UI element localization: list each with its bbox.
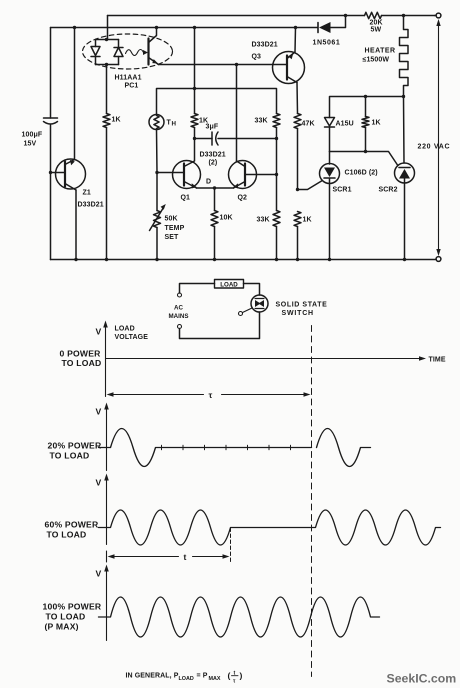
label 1N5061 xyxy=(313,40,341,47)
svg-text:AC: AC xyxy=(174,305,183,312)
svg-text:0 POWER: 0 POWER xyxy=(60,349,102,359)
junction bottom rail / 1K xyxy=(296,258,299,261)
axis V row1 (load voltage) xyxy=(105,325,107,397)
watermark SeekIC.com xyxy=(387,672,457,686)
svg-text:τ: τ xyxy=(233,679,236,685)
wire diode to rail A link xyxy=(331,16,346,28)
junction bottom rail / 33K xyxy=(275,258,278,261)
opto light squiggle arrow xyxy=(126,50,149,56)
resistor 1K (SCR1 gate) xyxy=(294,212,301,227)
label LOAD xyxy=(220,282,238,289)
svg-text:TO LOAD: TO LOAD xyxy=(47,530,87,540)
axis V row4 xyxy=(106,569,108,641)
wire top rail A (right of 20K) xyxy=(382,15,435,17)
label AC MAINS xyxy=(169,305,189,321)
svg-text:VOLTAGE: VOLTAGE xyxy=(115,334,149,341)
wire opto emitter to Q3 base xyxy=(159,64,273,66)
opto phototransistor base bar xyxy=(147,39,149,65)
resistor R3 33K (upper, x=276) xyxy=(273,114,280,128)
label C106D (2) xyxy=(345,170,378,177)
svg-text:D: D xyxy=(206,179,211,186)
value label 1K xyxy=(199,118,208,125)
resistor 10K xyxy=(214,188,216,211)
svg-text:LOAD: LOAD xyxy=(115,326,135,333)
source 220VAC terminals and arrows xyxy=(436,13,441,18)
value label 1K xyxy=(303,217,312,224)
junction R2 bottom / C2 3uF xyxy=(193,137,196,140)
resistor R4 33K (lower, x=276) xyxy=(273,211,280,227)
svg-text:PC1: PC1 xyxy=(125,83,139,90)
transistor Q2 xyxy=(229,161,257,189)
dimension line t xyxy=(106,551,108,562)
junction rail B / Z1 collector xyxy=(73,26,76,29)
junction opto cathode bus xyxy=(105,63,108,66)
opto LED top bus xyxy=(96,39,119,41)
junction rail A / diode link xyxy=(344,14,347,17)
label SCR1 xyxy=(333,187,352,194)
triac gate terminal xyxy=(239,312,243,316)
junction 47K / 1K / SCR1 gate xyxy=(296,188,299,191)
svg-text:3μF: 3μF xyxy=(206,124,219,131)
value label 1K xyxy=(372,120,381,127)
svg-text:τ: τ xyxy=(209,390,213,400)
wire TH bottom to Q1 base node xyxy=(156,130,159,173)
svg-text:20K: 20K xyxy=(370,20,383,27)
svg-text:SeekIC.com: SeekIC.com xyxy=(387,672,457,686)
transistor Q3 xyxy=(273,52,305,84)
svg-text:33K: 33K xyxy=(255,118,268,125)
svg-text:20% POWER: 20% POWER xyxy=(48,441,102,451)
junction Q3 base / Q2 collector drop xyxy=(235,63,238,66)
value label 1K xyxy=(112,117,121,124)
svg-text:V: V xyxy=(96,407,102,417)
label t xyxy=(184,552,187,562)
wire node y=96 xyxy=(330,97,404,118)
transistor Z1 xyxy=(56,159,86,189)
svg-text:IN GENERAL, P: IN GENERAL, P xyxy=(126,673,179,680)
transistor Q1 xyxy=(173,161,201,189)
svg-text:Z1: Z1 xyxy=(83,190,91,197)
svg-text:100μF: 100μF xyxy=(22,132,43,139)
svg-text:(P MAX): (P MAX) xyxy=(45,622,79,632)
junction emitters / 10K xyxy=(213,186,216,189)
label Q2 xyxy=(238,195,248,202)
triac solid state switch xyxy=(251,295,268,312)
svg-text:100% POWER: 100% POWER xyxy=(43,602,102,612)
label D33D21 / Q3 xyxy=(252,42,278,61)
diode CR1 1N5061 xyxy=(317,23,319,33)
dashed line at t end xyxy=(230,528,232,562)
junction rail A / heater xyxy=(402,14,405,17)
waveform 60% power xyxy=(99,510,441,545)
wire AC bottom to triac xyxy=(180,312,260,339)
junction rail B / opto collector xyxy=(155,26,158,29)
formula IN GENERAL P_LOAD = P_MAX (t/tau) xyxy=(126,671,243,685)
thyristor SCR1 xyxy=(329,152,331,165)
resistor 47K xyxy=(294,114,301,129)
value label 33K xyxy=(257,217,270,224)
svg-text:SOLID STATE: SOLID STATE xyxy=(276,302,328,309)
svg-text:33K: 33K xyxy=(257,217,270,224)
svg-text:1N5061: 1N5061 xyxy=(313,40,341,47)
svg-text:1K: 1K xyxy=(112,117,121,124)
svg-text:50K: 50K xyxy=(165,216,178,223)
value label 20K / 5W xyxy=(370,20,383,34)
svg-text:1K: 1K xyxy=(303,217,312,224)
axis V row2 xyxy=(106,407,108,471)
wire node y=151 to SCR2 gate xyxy=(330,152,398,166)
wire Q2 collector drop xyxy=(236,65,238,162)
axis V row3 xyxy=(106,478,108,545)
diode A15U xyxy=(325,118,335,127)
junction bottom rail / SCR2 xyxy=(403,258,406,261)
wire top rail A (left of 20K) xyxy=(108,15,365,17)
svg-text:Q1: Q1 xyxy=(181,195,191,202)
dashed reference line x=311 xyxy=(311,326,313,677)
svg-text:H11AA1: H11AA1 xyxy=(115,75,142,82)
label SOLID STATE SWITCH xyxy=(276,302,328,318)
label TH xyxy=(167,120,177,128)
svg-text:HEATER: HEATER xyxy=(365,48,396,55)
svg-text:MAINS: MAINS xyxy=(169,313,189,320)
junction y=88 / R2 1K line xyxy=(193,87,196,90)
svg-text:TO LOAD: TO LOAD xyxy=(46,612,86,622)
baseline row1 with TIME arrow xyxy=(106,358,423,360)
value label 10K xyxy=(220,215,233,222)
svg-text:= P: = P xyxy=(197,673,208,680)
junction opto anode bus xyxy=(105,38,108,41)
AC mains terminal (top) xyxy=(178,293,182,297)
wire Z1 emitter to bottom rail xyxy=(75,190,77,260)
label Q1 xyxy=(181,195,191,202)
label Z1 / D33D21 xyxy=(78,190,104,209)
junction bottom rail / SCR1 xyxy=(328,258,331,261)
svg-text:15V: 15V xyxy=(24,141,37,148)
junction Q1 base / TH / 50K pot xyxy=(155,171,158,174)
svg-text:LOAD: LOAD xyxy=(179,676,194,682)
label HEATER 1500W xyxy=(363,48,396,64)
wire Q3 emitter down xyxy=(296,83,299,114)
LOAD box xyxy=(215,280,244,289)
label D (between Q1 Q2) xyxy=(206,179,211,186)
svg-text:V: V xyxy=(96,569,102,579)
svg-text:47K: 47K xyxy=(302,121,315,128)
resistor 20K 5W in rail A xyxy=(365,12,382,18)
waveform 100% power xyxy=(99,597,380,637)
svg-text:t: t xyxy=(184,552,187,562)
heater element 1500W xyxy=(400,16,409,97)
value label 50K TEMP SET xyxy=(165,216,185,242)
svg-text:≤1500W: ≤1500W xyxy=(363,57,390,64)
svg-text:LOAD: LOAD xyxy=(220,282,238,289)
wire bottom rail xyxy=(51,259,437,261)
junction 1K bottom / y=151 xyxy=(364,150,367,153)
junction Q2 base / divider xyxy=(275,173,278,176)
dimension line tau xyxy=(113,394,204,396)
svg-text:D33D21: D33D21 xyxy=(78,202,104,209)
junction bottom rail / 50K xyxy=(155,258,158,261)
wire top rail to source xyxy=(435,15,437,17)
svg-text:SCR1: SCR1 xyxy=(333,187,352,194)
value label 3uF xyxy=(206,124,219,131)
opto LED D2 pointing up xyxy=(118,40,120,48)
junction bottom rail / 10K xyxy=(213,258,216,261)
label 20% POWER TO LOAD xyxy=(48,441,102,461)
waveform 20% power xyxy=(99,429,312,467)
svg-text:60% POWER: 60% POWER xyxy=(45,520,99,530)
capacitor C2 3uF xyxy=(195,138,213,140)
svg-text:(: ( xyxy=(228,671,231,681)
opto LED D1 pointing down xyxy=(95,40,97,47)
svg-text:C106D (2): C106D (2) xyxy=(345,170,378,177)
tick marks row2 baseline xyxy=(161,445,163,450)
opto phototransistor collector lead xyxy=(149,28,157,43)
label 100% POWER TO LOAD (P MAX) xyxy=(43,602,102,632)
svg-text:Q2: Q2 xyxy=(238,195,248,202)
svg-text:D33D21: D33D21 xyxy=(252,42,278,49)
svg-text:MAX: MAX xyxy=(209,676,221,682)
thermistor TH xyxy=(149,115,164,130)
label TIME xyxy=(429,357,446,364)
resistor 1K (SCR2 gate) xyxy=(365,97,367,117)
svg-text:SET: SET xyxy=(165,234,180,241)
junction C2 / 33K divider xyxy=(275,137,278,140)
junction Z1 base on left rail xyxy=(49,171,52,174)
junction 1K right top xyxy=(364,95,367,98)
value label 33K xyxy=(255,118,268,125)
wire LOAD left to AC terminal xyxy=(180,284,215,294)
svg-text:TEMP: TEMP xyxy=(165,225,185,232)
svg-text:TIME: TIME xyxy=(429,357,446,364)
value label 100uF 15V xyxy=(22,132,43,148)
svg-text:V: V xyxy=(96,478,102,488)
svg-text:TO LOAD: TO LOAD xyxy=(62,358,102,368)
wire drop rail A to opto anode bus xyxy=(107,16,109,40)
label LOAD VOLTAGE xyxy=(115,326,149,342)
wire Q1-Q2 emitter join xyxy=(197,187,234,189)
wire node y=88 (TH top to 33K top) xyxy=(157,89,277,115)
resistor R1 1K (x=106) xyxy=(106,65,108,114)
resistor R2 1K (x=194) xyxy=(194,28,196,114)
svg-text:V: V xyxy=(96,327,102,337)
value label 47K xyxy=(302,121,315,128)
svg-text:220 VAC: 220 VAC xyxy=(418,144,451,151)
label A15U xyxy=(336,121,354,128)
label D33D21 (2) xyxy=(200,152,226,167)
junction heater bottom / SCR2 anode xyxy=(402,95,405,98)
svg-text:SCR2: SCR2 xyxy=(379,187,398,194)
label 60% POWER TO LOAD xyxy=(45,520,99,540)
wire SCR1 gate xyxy=(298,181,322,190)
svg-text:1K: 1K xyxy=(372,120,381,127)
opto phototransistor emitter lead with arrow xyxy=(149,58,159,65)
svg-text:TO LOAD: TO LOAD xyxy=(50,451,90,461)
svg-text:D33D21: D33D21 xyxy=(200,152,226,159)
label 220 VAC xyxy=(418,144,451,151)
capacitor C1 100uF (series in left rail) xyxy=(50,28,52,119)
label SCR2 xyxy=(379,187,398,194)
svg-text:Q3: Q3 xyxy=(252,54,262,61)
potentiometer 50K TEMP SET xyxy=(156,173,158,211)
thyristor SCR2 xyxy=(403,97,406,164)
svg-text:SWITCH: SWITCH xyxy=(282,310,314,317)
svg-text:10K: 10K xyxy=(220,215,233,222)
svg-text:(2): (2) xyxy=(209,160,218,167)
opto LED bottom bus xyxy=(96,64,119,66)
junction rail B / R2 1K xyxy=(193,26,196,29)
junction rail B / Q3 collector xyxy=(294,26,297,29)
label H11AA1 / PC1 xyxy=(115,75,142,90)
junction bottom rail / Z1 emitter xyxy=(74,258,77,261)
wire LOAD right to triac xyxy=(244,284,260,296)
junction bottom rail / R1 xyxy=(105,258,108,261)
svg-text:): ) xyxy=(240,671,243,681)
wire Z1 collector from rail B xyxy=(74,28,76,160)
svg-text:5W: 5W xyxy=(371,27,382,34)
AC mains terminal (bottom) xyxy=(178,325,182,329)
svg-text:H: H xyxy=(172,121,177,128)
label tau xyxy=(209,390,213,400)
svg-text:A15U: A15U xyxy=(336,121,354,128)
optocoupler U1 H11AA1 dashed envelope xyxy=(83,34,173,69)
wire rail B y=27 xyxy=(51,27,318,29)
label 0 POWER TO LOAD xyxy=(60,349,102,369)
